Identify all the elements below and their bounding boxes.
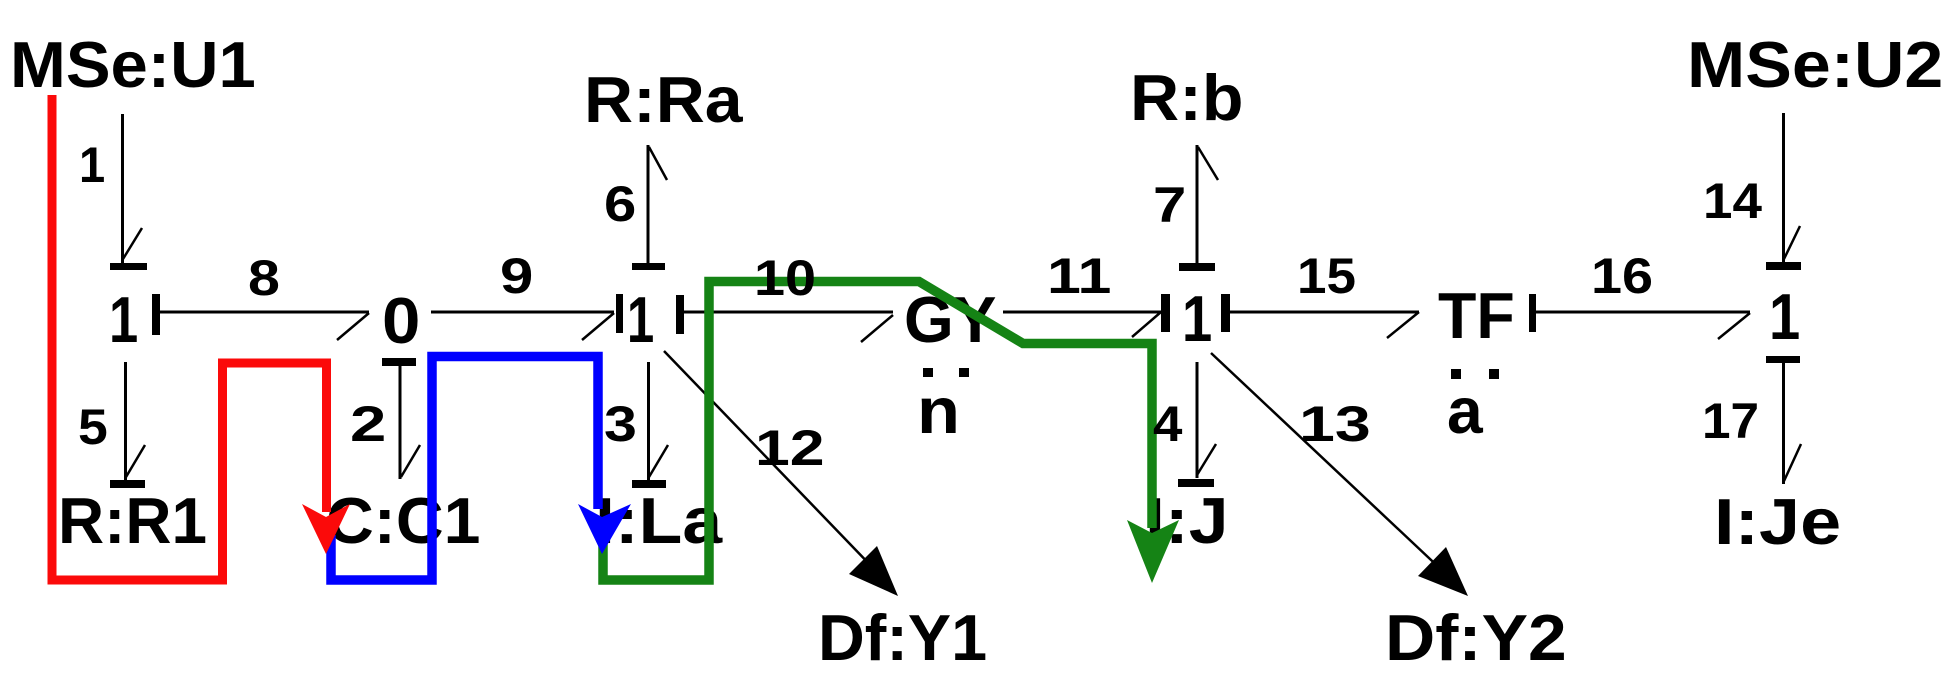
bond number 7 — [1153, 177, 1186, 233]
svg-text:C:C1: C:C1 — [326, 484, 480, 557]
svg-text:16: 16 — [1591, 248, 1653, 304]
bond 2 0-junction to C:C1 — [382, 358, 420, 479]
bond number 12 — [755, 420, 825, 476]
svg-text:MSe:U1: MSe:U1 — [10, 28, 256, 101]
svg-text:TF: TF — [1438, 279, 1515, 352]
svg-text:MSe:U2: MSe:U2 — [1687, 28, 1943, 101]
bond number 8 — [248, 250, 280, 306]
svg-text:17: 17 — [1702, 393, 1759, 449]
svg-text:8: 8 — [248, 250, 280, 306]
svg-text:13: 13 — [1299, 396, 1371, 452]
bond number 10 — [754, 250, 816, 306]
source MSe:U2 — [1687, 28, 1943, 101]
bond number 15 — [1297, 248, 1356, 304]
bond 17 J4 to I:Je — [1766, 356, 1801, 484]
svg-text:4: 4 — [1153, 396, 1183, 452]
gyrator GY with modulus n — [904, 283, 996, 447]
resistor R:R1 — [58, 484, 207, 557]
1-junction J3 — [1182, 282, 1212, 355]
svg-text:3: 3 — [604, 396, 637, 452]
svg-text:10: 10 — [754, 250, 816, 306]
bond number 9 — [500, 248, 533, 304]
svg-text:9: 9 — [500, 248, 533, 304]
svg-text:R:Ra: R:Ra — [584, 63, 743, 136]
blue causal path C:C1 to I:La — [331, 357, 631, 581]
1-junction J4 — [1769, 280, 1800, 353]
svg-text:11: 11 — [1047, 248, 1111, 304]
signal bond 12 J2 to Df:Y1 — [664, 351, 898, 596]
bond 6 J2 to R:Ra — [632, 145, 667, 270]
svg-text:R:b: R:b — [1130, 61, 1244, 134]
1-junction J2 — [627, 283, 654, 356]
bond number 17 — [1702, 393, 1759, 449]
svg-text:0: 0 — [382, 284, 420, 357]
bond number 3 — [604, 396, 637, 452]
source MSe:U1 — [10, 28, 256, 101]
bond number 16 — [1591, 248, 1653, 304]
bond number 4 — [1153, 396, 1183, 452]
bond 3 J2 to I:La — [632, 362, 668, 488]
bond 9 0-junction to J2 — [431, 294, 623, 340]
svg-text:15: 15 — [1297, 248, 1356, 304]
bond 5 J1 to R:R1 — [110, 362, 145, 488]
svg-text:1: 1 — [627, 283, 654, 356]
svg-text:R:R1: R:R1 — [58, 484, 207, 557]
bond 1 MSe:U1 to J1 — [110, 114, 147, 270]
flow detector Df:Y2 — [1385, 601, 1567, 674]
svg-text:1: 1 — [79, 137, 105, 193]
svg-text:2: 2 — [350, 396, 386, 452]
bond 7 J3 to R:b — [1179, 145, 1218, 271]
svg-text:12: 12 — [755, 420, 825, 476]
bond 11 GY to J3 — [1003, 294, 1170, 337]
inductor I:La — [595, 484, 723, 557]
svg-text:Df:Y2: Df:Y2 — [1385, 601, 1567, 674]
svg-text:a: a — [1447, 374, 1484, 447]
svg-text:Df:Y1: Df:Y1 — [818, 601, 987, 674]
svg-text:6: 6 — [604, 176, 636, 232]
1-junction J1 — [109, 283, 138, 356]
bond number 5 — [78, 399, 108, 455]
bond number 11 — [1047, 248, 1111, 304]
svg-text:1: 1 — [1769, 280, 1800, 353]
svg-text:I:Je: I:Je — [1714, 485, 1841, 558]
inertia I:J — [1145, 484, 1229, 557]
capacitor C:C1 — [326, 484, 480, 557]
resistor R:Ra — [584, 63, 743, 136]
bond 10 J2 to GY — [676, 295, 893, 342]
bond 4 J3 to I:J — [1178, 362, 1216, 487]
transformer TF with modulus a — [1438, 279, 1515, 447]
flow detector Df:Y1 — [818, 601, 987, 674]
svg-text:5: 5 — [78, 399, 108, 455]
bond number 13 — [1299, 396, 1371, 452]
bond 15 J3 to TF — [1221, 294, 1419, 338]
bond number 2 — [350, 396, 386, 452]
bond 8 J1 to 0-junction — [152, 294, 369, 340]
bond number 6 — [604, 176, 636, 232]
svg-text:14: 14 — [1703, 173, 1762, 229]
resistor R:b — [1130, 61, 1244, 134]
svg-text:1: 1 — [1182, 282, 1212, 355]
bond 16 TF to J4 — [1529, 294, 1750, 339]
svg-text:1: 1 — [109, 283, 138, 356]
svg-text:7: 7 — [1153, 177, 1186, 233]
inertia I:Je — [1714, 485, 1841, 558]
svg-text:n: n — [917, 374, 960, 447]
bond number 14 — [1703, 173, 1762, 229]
green causal path I:La to I:J via GY — [603, 282, 1179, 584]
red causal path MSe:U1 to C:C1 — [52, 95, 350, 580]
0-junction — [382, 284, 420, 357]
bond number 1 — [79, 137, 105, 193]
signal bond 13 J3 to Df:Y2 — [1211, 353, 1468, 596]
bond 14 MSe:U2 to J4 — [1766, 113, 1801, 270]
